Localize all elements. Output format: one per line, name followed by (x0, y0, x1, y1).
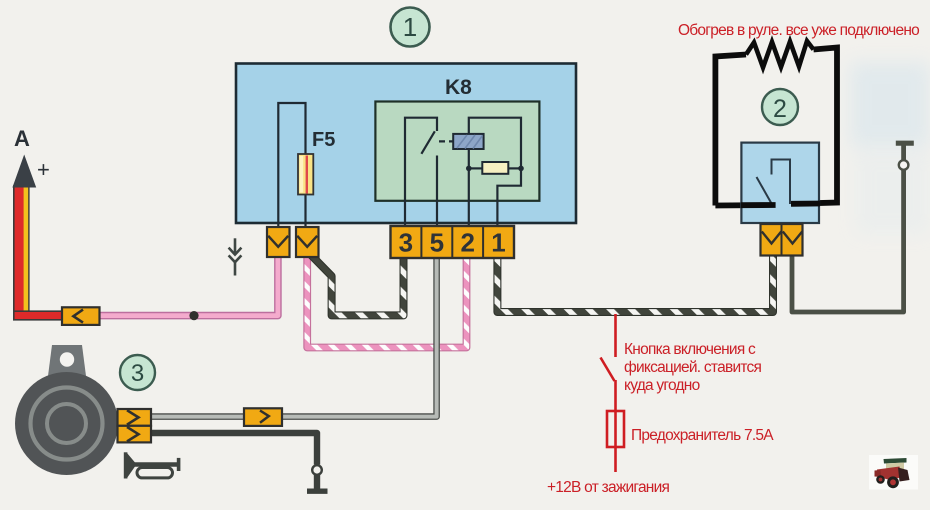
heater switch contact (757, 160, 791, 205)
connector strip pins 3 5 2 1 (391, 226, 515, 258)
wire: red battery feed (vertical+horizontal) (14, 186, 62, 320)
relay K8 resistor (466, 162, 524, 174)
connector (battery feed, pin) under box (267, 227, 290, 257)
label circle 3 (120, 355, 155, 390)
label circle 1 (391, 8, 430, 47)
svg-text:+: + (37, 157, 50, 182)
wire: pink feed to relay box connector (99, 256, 278, 316)
chassis ground symbol (right) (896, 143, 914, 170)
heater switch box (item 2) (741, 143, 819, 223)
svg-text:2: 2 (460, 228, 474, 258)
svg-text:1: 1 (491, 228, 505, 258)
svg-text:1: 1 (403, 12, 417, 42)
svg-text:фиксацией. ставится: фиксацией. ставится (624, 359, 762, 376)
junction dot on pink wire (189, 311, 198, 320)
relay K8 pin1 internal wiring (497, 168, 521, 226)
relay K8 movable contact lead (pin 5) (436, 156, 438, 227)
horn body (item 3) (15, 372, 118, 475)
fuse 7.5A annotation symbol (607, 411, 624, 447)
svg-text:A: A (14, 126, 30, 151)
svg-text:F5: F5 (312, 129, 335, 151)
svg-text:3: 3 (399, 228, 413, 258)
car logo (869, 455, 918, 490)
wire: dark (heater switch to chassis right) (792, 170, 904, 312)
relay K8 coil lead wiring (469, 118, 521, 169)
node A battery arrow (12, 126, 49, 188)
connector (horn relay output) under box (296, 227, 319, 257)
wire: gray (pin 5 to horn) (150, 257, 437, 417)
chassis ground symbol (bottom) (307, 465, 328, 491)
svg-text:Обогрев в руле. все уже подклю: Обогрев в руле. все уже подключено (678, 22, 919, 39)
dashes to coil (439, 140, 455, 142)
horn trumpet icon (126, 452, 179, 479)
heater loop bars over switch box (741, 202, 776, 208)
wire: black/white striped (relay conn to pin 3) (311, 255, 404, 315)
ground symbol (body connection, under box) (229, 238, 242, 275)
relay K8 coil (453, 134, 483, 149)
label circle 2 (762, 89, 798, 125)
svg-text:+12В от зажигания: +12В от зажигания (547, 479, 670, 496)
svg-text:5: 5 (430, 228, 444, 258)
svg-text:Предохранитель 7.5А: Предохранитель 7.5А (631, 427, 774, 444)
fuse F5 (298, 129, 335, 195)
horn bracket (48, 345, 86, 376)
fuse F5 loop wiring (278, 103, 305, 227)
connector on battery wire (62, 307, 100, 325)
svg-text:K8: K8 (445, 76, 472, 99)
wire: black (horn to ground) (150, 433, 317, 465)
svg-text:3: 3 (131, 360, 144, 387)
horn connectors (118, 409, 152, 442)
svg-text:куда угодно: куда угодно (624, 377, 700, 394)
heater loop with resistor (steering wheel heating) (715, 41, 837, 206)
connector on gray wire (244, 408, 282, 426)
relay K8 switch blade (421, 131, 434, 154)
relay/fuse block unit (item 1) (236, 64, 576, 224)
relay K8 contact feed wiring (405, 118, 437, 226)
button switch annotation (red) (601, 314, 625, 472)
wire: pink/white striped (relay conn to pin 2) (307, 255, 466, 348)
svg-text:Кнопка включения с: Кнопка включения с (624, 341, 756, 358)
svg-text:2: 2 (773, 95, 787, 123)
relay K8 box (375, 102, 539, 201)
wire: black/white striped (pin 1 to heater switch) (497, 255, 773, 312)
heater connector (761, 224, 803, 256)
